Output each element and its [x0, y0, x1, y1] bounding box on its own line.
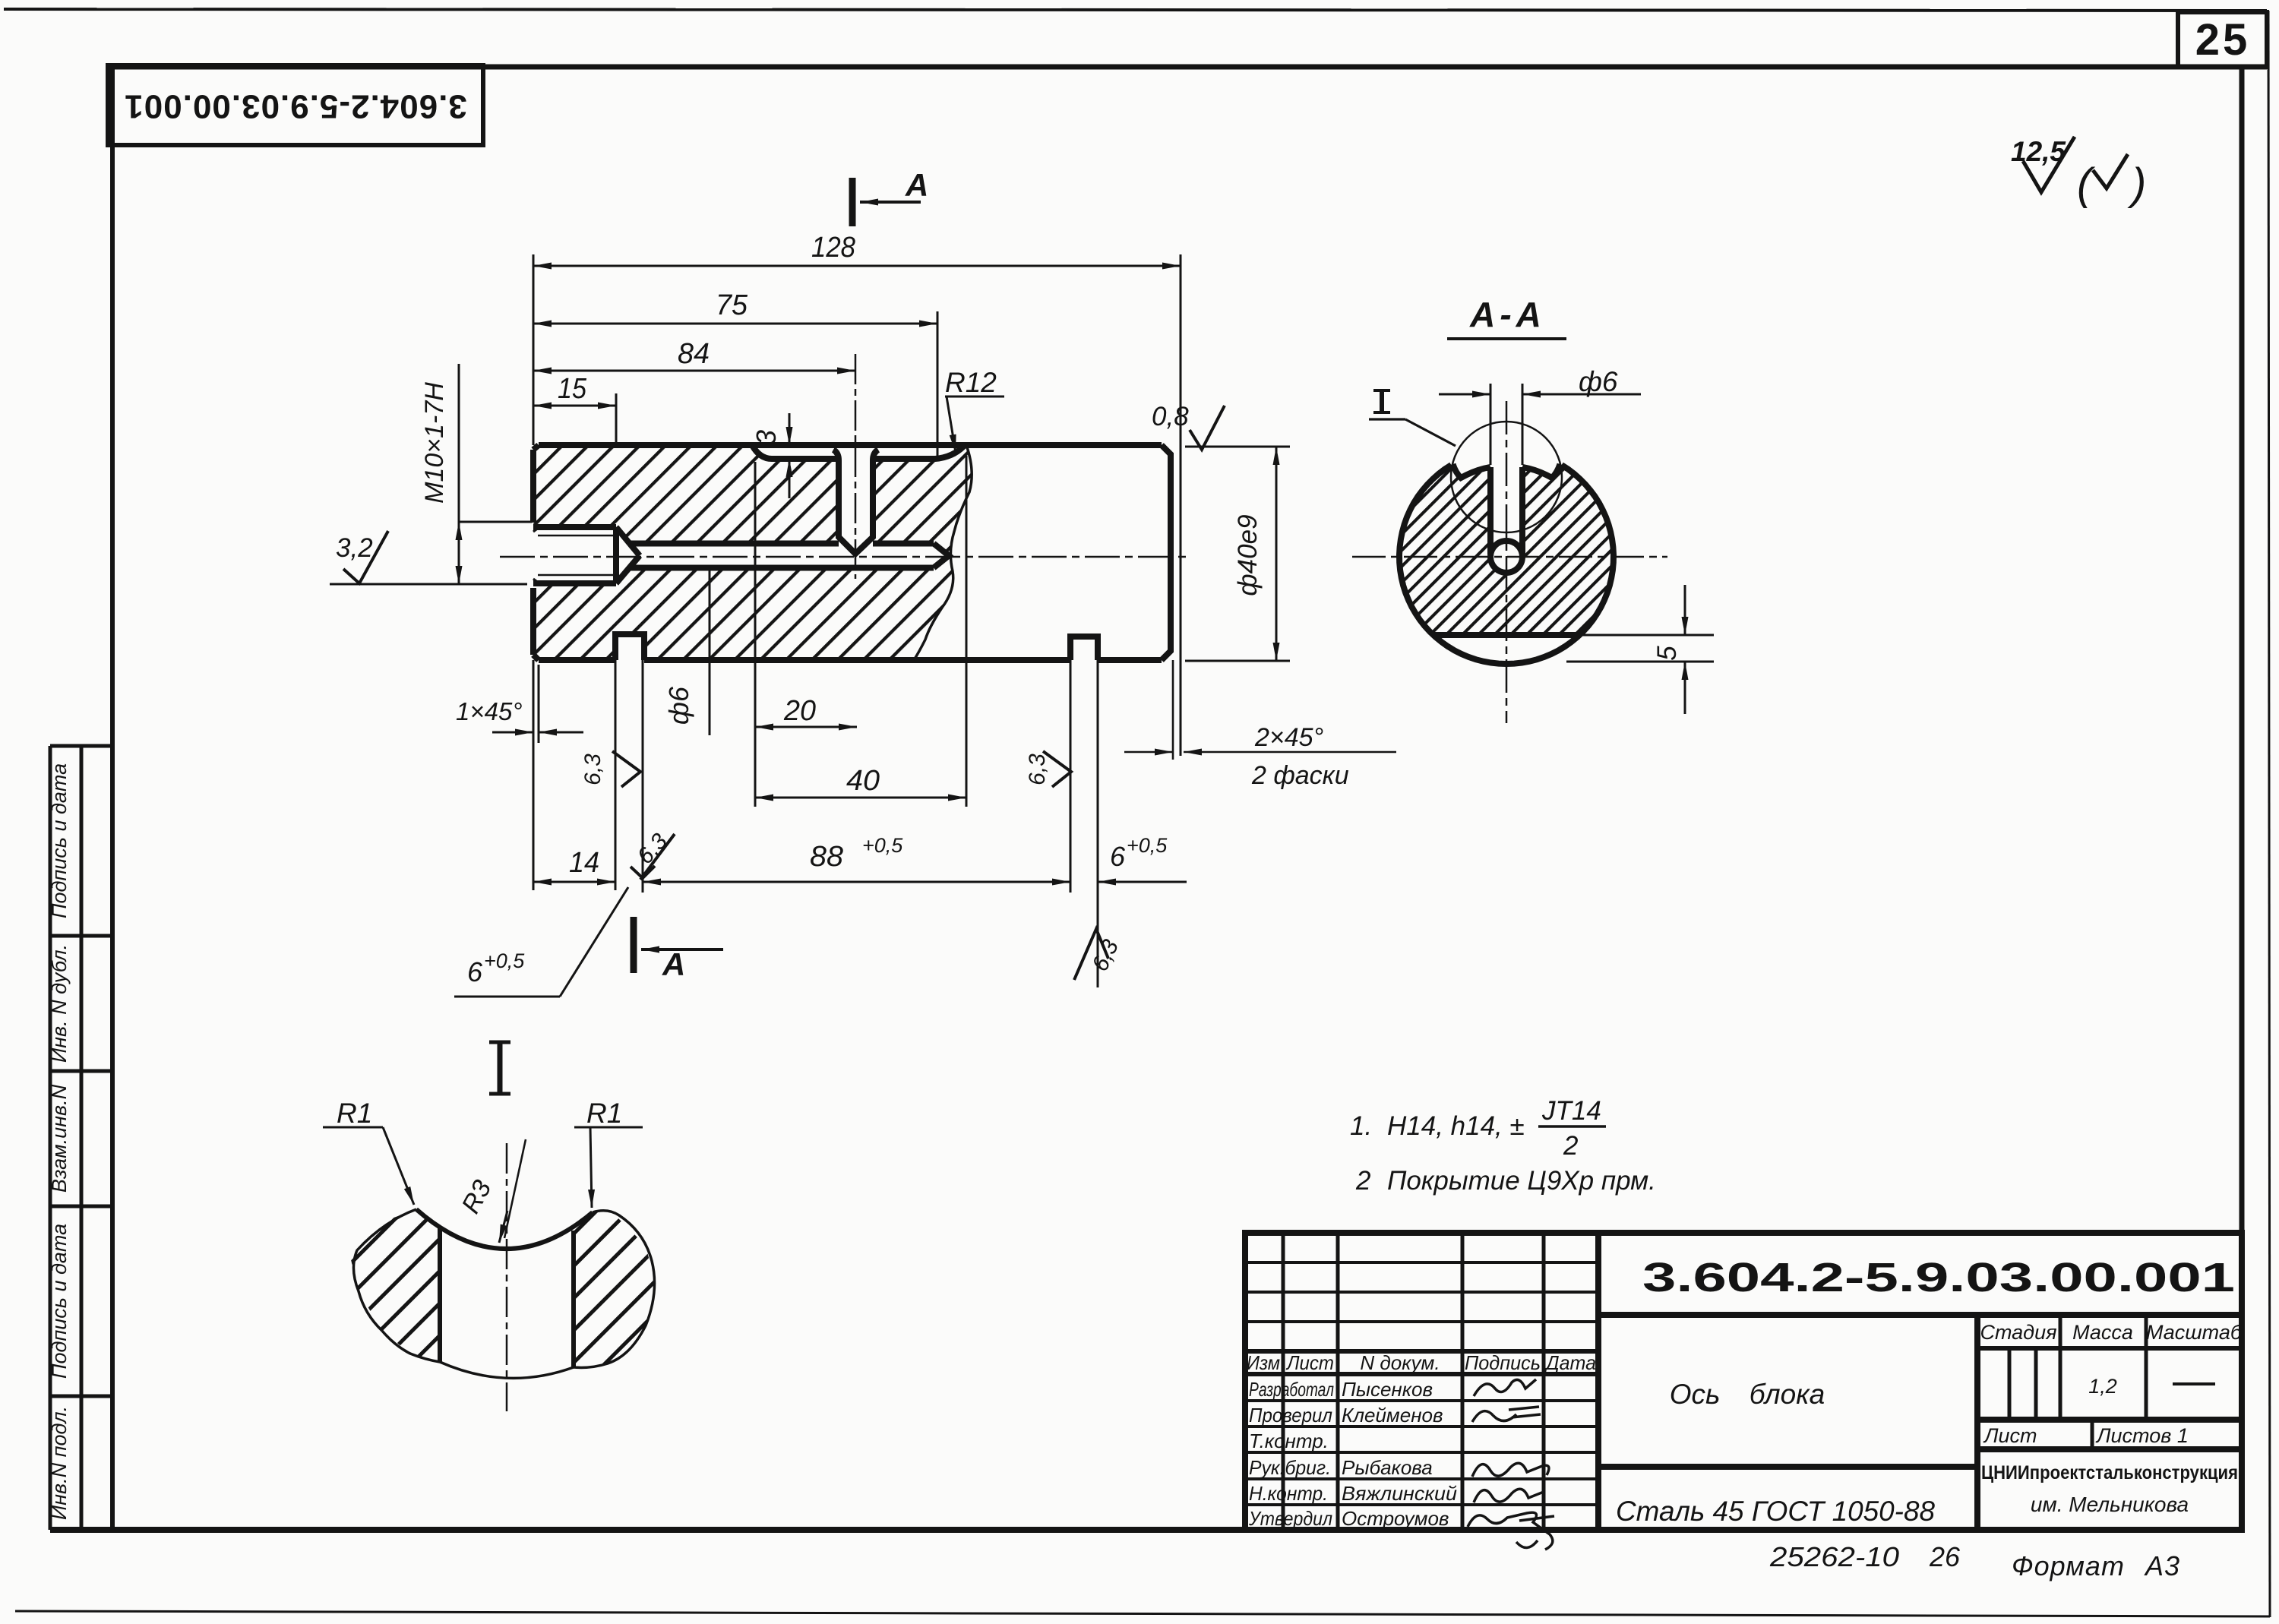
svg-text:128: 128	[811, 232, 855, 264]
svg-text:N докум.: N докум.	[1360, 1351, 1440, 1374]
svg-text:2: 2	[1563, 1131, 1578, 1161]
svg-text:84: 84	[678, 338, 710, 370]
svg-text:1.: 1.	[1350, 1111, 1372, 1141]
svg-text:R1: R1	[337, 1098, 372, 1129]
svg-text:1,2: 1,2	[2088, 1375, 2117, 1398]
svg-text:14: 14	[569, 847, 599, 879]
svg-text:Ось блока: Ось блока	[1670, 1379, 1825, 1410]
svg-text:Лист: Лист	[1983, 1424, 2037, 1447]
svg-text:3,2: 3,2	[336, 533, 373, 563]
svg-text:5: 5	[1652, 646, 1682, 661]
svg-text:ЦНИИпроектстальконструкция: ЦНИИпроектстальконструкция	[1981, 1462, 2238, 1483]
svg-text:Стадия: Стадия	[1980, 1321, 2056, 1344]
svg-text:ф6: ф6	[663, 686, 694, 725]
svg-text:88: 88	[810, 841, 843, 873]
svg-text:Т.контр.: Т.контр.	[1249, 1430, 1329, 1452]
svg-text:Пысенков: Пысенков	[1342, 1378, 1433, 1401]
svg-text:Рыбакова: Рыбакова	[1342, 1456, 1433, 1479]
svg-text:6,3: 6,3	[1025, 754, 1050, 785]
svg-text:3: 3	[751, 430, 782, 445]
svg-text:ф40е9: ф40е9	[1233, 514, 1263, 596]
svg-text:Масштаб: Масштаб	[2146, 1321, 2243, 1344]
svg-text:2×45°: 2×45°	[1254, 723, 1323, 752]
svg-text:6: 6	[467, 956, 483, 987]
svg-text:Инв. N дубл.: Инв. N дубл.	[48, 944, 71, 1063]
svg-text:Рук.бриг.: Рук.бриг.	[1249, 1456, 1331, 1479]
svg-text:A: A	[905, 167, 928, 203]
svg-text:25262-10: 25262-10	[1769, 1541, 1899, 1572]
svg-text:A-A: A-A	[1469, 295, 1546, 334]
svg-text:R12: R12	[945, 367, 997, 398]
svg-text:3.604.2-5.9.03.00.001: 3.604.2-5.9.03.00.001	[124, 87, 467, 125]
svg-text:R1: R1	[586, 1098, 622, 1129]
svg-text:Взам.инв.N: Взам.инв.N	[48, 1084, 71, 1193]
svg-text:Инв.N подл.: Инв.N подл.	[48, 1406, 71, 1520]
svg-text:6,3: 6,3	[580, 754, 605, 785]
svg-text:им. Мельникова: им. Мельникова	[2031, 1493, 2189, 1516]
svg-text:12,5: 12,5	[2011, 136, 2066, 167]
svg-text:Подпись: Подпись	[1465, 1351, 1541, 1374]
svg-text:75: 75	[716, 289, 748, 321]
svg-text:3.604.2-5.9.03.00.001: 3.604.2-5.9.03.00.001	[1642, 1255, 2235, 1300]
svg-text:Н.контр.: Н.контр.	[1249, 1482, 1328, 1505]
svg-text:Изм: Изм	[1247, 1351, 1280, 1374]
svg-text:Проверил: Проверил	[1249, 1404, 1332, 1427]
svg-text:Остроумов: Остроумов	[1342, 1507, 1449, 1530]
svg-text:ф6: ф6	[1579, 366, 1618, 397]
svg-text:Масса: Масса	[2072, 1321, 2133, 1344]
svg-text:2: 2	[1355, 1166, 1370, 1196]
svg-text:Подпись и дата: Подпись и дата	[48, 763, 71, 918]
svg-text:6: 6	[1110, 841, 1126, 872]
svg-text:Клейменов: Клейменов	[1342, 1404, 1443, 1427]
svg-text:JT14: JT14	[1541, 1096, 1601, 1126]
svg-text:Подпись и дата: Подпись и дата	[48, 1224, 71, 1379]
svg-text:0,8: 0,8	[1152, 402, 1189, 431]
svg-text:15: 15	[558, 373, 587, 405]
svg-text:Утвердил: Утвердил	[1248, 1507, 1332, 1530]
svg-text:M10×1-7H: M10×1-7H	[420, 382, 449, 504]
svg-text:Лист: Лист	[1285, 1351, 1334, 1374]
svg-text:Листов 1: Листов 1	[2095, 1424, 2189, 1447]
svg-text:Формат А3: Формат А3	[2012, 1550, 2180, 1581]
svg-text:+0,5: +0,5	[484, 949, 525, 972]
svg-text:A: A	[662, 946, 685, 982]
svg-text:1×45°: 1×45°	[456, 697, 523, 725]
svg-text:25: 25	[2195, 15, 2251, 65]
svg-text:20: 20	[783, 695, 816, 727]
svg-text:26: 26	[1929, 1541, 1961, 1572]
svg-text:2 фаски: 2 фаски	[1251, 761, 1349, 790]
svg-text:Разработал: Разработал	[1249, 1378, 1334, 1401]
svg-text:40: 40	[846, 765, 880, 797]
svg-text:Сталь 45 ГОСТ 1050-88: Сталь 45 ГОСТ 1050-88	[1616, 1496, 1935, 1527]
svg-text:+0,5: +0,5	[862, 834, 903, 857]
svg-text:Вяжлинский: Вяжлинский	[1342, 1482, 1457, 1505]
svg-text:Покрытие Ц9Хр прм.: Покрытие Ц9Хр прм.	[1387, 1166, 1656, 1196]
svg-text:Дата: Дата	[1544, 1351, 1596, 1374]
svg-text:+0,5: +0,5	[1127, 834, 1168, 857]
svg-text:H14, h14, ±: H14, h14, ±	[1387, 1111, 1525, 1141]
